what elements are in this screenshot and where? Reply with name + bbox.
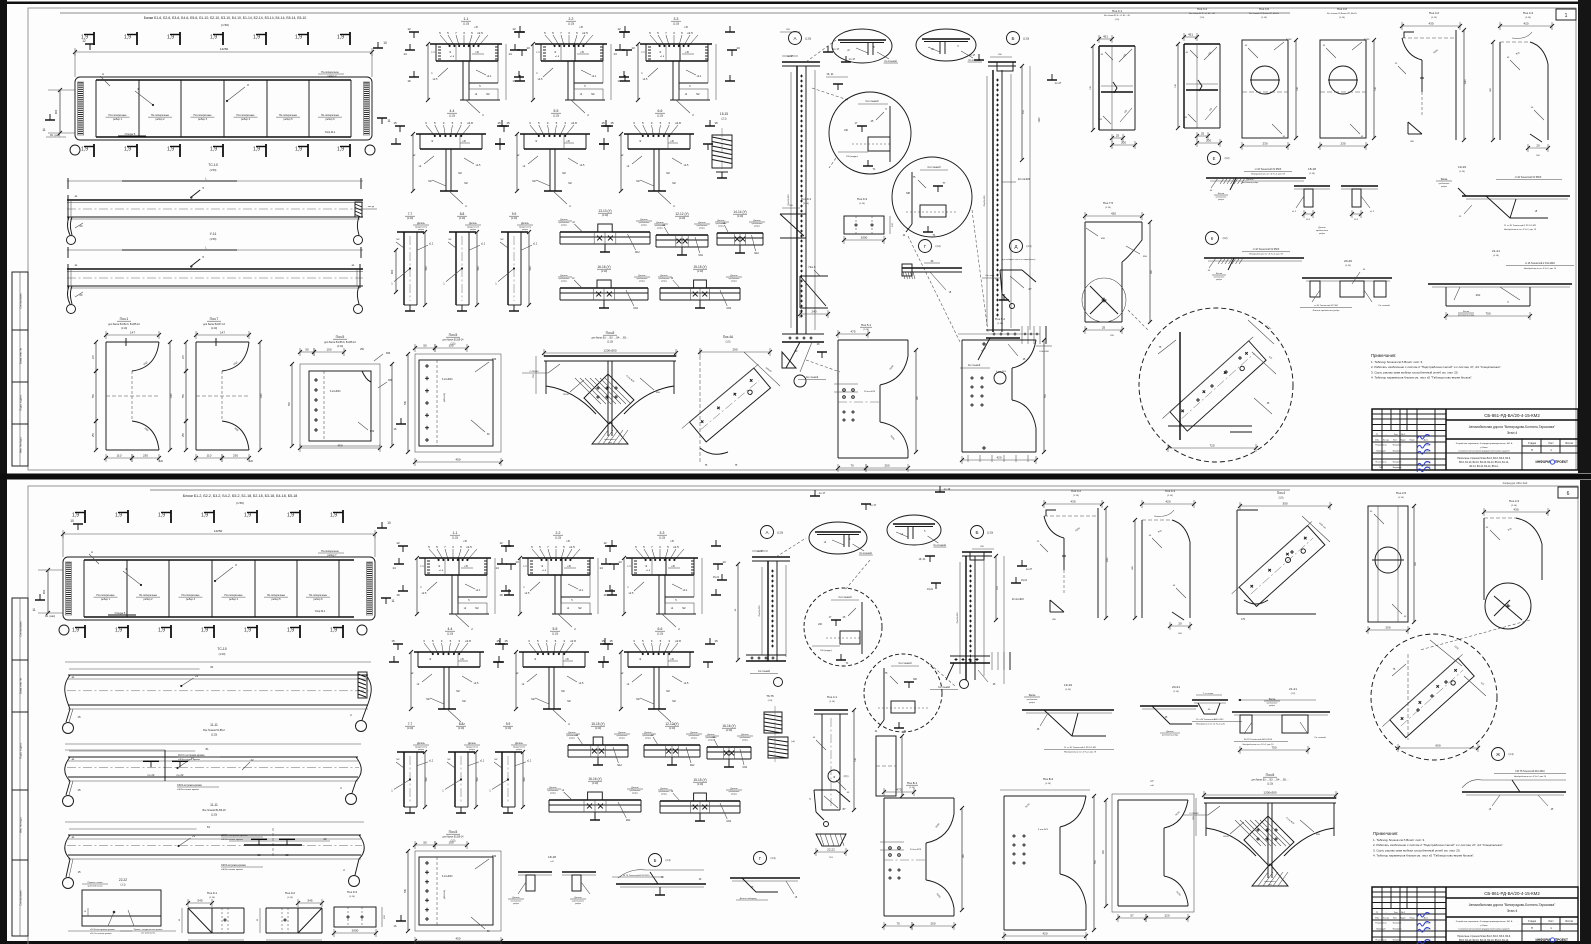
channel detail 8-8 sheet1 [443, 212, 486, 311]
svg-text:Взам. инв. №: Взам. инв. № [19, 678, 23, 694]
svg-text:По-поперечные: По-поперечные [193, 114, 212, 117]
svg-text:гребневого ребра: гребневого ребра [1162, 735, 1179, 737]
svg-text:70: 70 [850, 464, 854, 468]
svg-text:(1:10): (1:10) [553, 115, 559, 118]
leader bubble line sheet1 [1128, 310, 1148, 330]
svg-text:по 1Г: по 1Г [833, 47, 840, 51]
svg-text:По-поперечное: По-поперечное [321, 550, 339, 553]
sheet2 elev2 leader 22 [242, 758, 254, 770]
svg-text:(1:10): (1:10) [1267, 784, 1273, 786]
svg-text:22: 22 [257, 853, 261, 857]
svg-text:700 (подкр.): 700 (подкр.) [820, 650, 832, 652]
svg-text:Разработал: Разработал [1375, 445, 1387, 447]
svg-text:1,9: 1,9 [330, 513, 337, 519]
channel detail 9-9 sheet2 [489, 722, 532, 813]
svg-text:Деталь: Деталь [417, 743, 425, 745]
svg-text:Фамилия: Фамилия [1393, 939, 1402, 942]
svg-text:Б: Б [1011, 36, 1014, 41]
svg-text:х2.8: х2.8 [465, 639, 471, 643]
svg-text:Со стенкой: Со стенкой [758, 670, 771, 673]
svg-text:Проверил: Проверил [1376, 451, 1386, 453]
svg-text:25: 25 [1201, 132, 1205, 136]
svg-text:х.В: х.В [670, 540, 674, 543]
svg-text:(1:10): (1:10) [121, 327, 127, 330]
sheet1 title text [144, 16, 307, 27]
svg-text:х2.5: х2.5 [422, 592, 427, 595]
svg-text:±46 Б-острожка кромка: ±46 Б-острожка кромка [177, 785, 202, 787]
svg-text:147: 147 [130, 331, 135, 335]
svg-text:R30: R30 [370, 431, 375, 433]
svg-text:(1:10): (1:10) [697, 270, 703, 273]
svg-text:Поз.9.3: Поз.9.3 [857, 197, 868, 201]
svg-text:1080: 1080 [1107, 557, 1109, 563]
plate Poz5.1 sheet1 [834, 323, 919, 472]
svg-text:14: 14 [495, 566, 499, 570]
svg-text:ребра: ребра [561, 281, 568, 283]
svg-text:3. Сорн, распас-свая выбкал сп: 3. Сорн, распас-свая выбкал способленный… [1373, 848, 1461, 852]
svg-text:(1:10): (1:10) [463, 23, 469, 26]
plate Poz4.6a sheet1 [1240, 7, 1299, 150]
svg-text:ст.10 Технослой Х2 300: ст.10 Технослой Х2 300 [1314, 304, 1339, 307]
svg-text:230: 230 [1262, 142, 1267, 146]
svg-text:Разработал: Разработал [1375, 923, 1387, 925]
svg-text:545: 545 [197, 899, 202, 903]
svg-text:Блоки Б1-2, Б2-2, Б3-2, Б4-2,: Блоки Б1-2, Б2-2, Б3-2, Б4-2, Б5-2, Б1-1… [183, 494, 298, 498]
svg-text:По-поперечное: По-поперечное [321, 71, 339, 74]
svg-text:1-1: 1-1 [453, 531, 458, 535]
svg-text:ребра: ребра [1216, 279, 1223, 281]
svg-text:13: 13 [736, 46, 740, 50]
svg-text:R30: R30 [386, 353, 391, 355]
svg-text:9-9: 9-9 [512, 212, 517, 216]
svg-text:(1:10): (1:10) [209, 897, 215, 899]
svg-text:14: 14 [613, 52, 617, 56]
svg-text:ребер 3: ребер 3 [186, 598, 196, 601]
svg-text:Со стенкой: Со стенкой [1314, 736, 1326, 739]
section detail 2-2 sheet1 [508, 17, 635, 117]
svg-text:(1:10): (1:10) [407, 217, 413, 220]
svg-text:Кол.уч: Кол.уч [1383, 440, 1389, 442]
svg-text:(1:10): (1:10) [997, 323, 1003, 325]
svg-text:19, 21: 19, 21 [919, 558, 927, 561]
svg-text:Со стенкой: Со стенкой [866, 100, 880, 103]
svg-text:720: 720 [1209, 444, 1214, 448]
svg-text:Лист: Лист [1393, 440, 1397, 442]
svg-text:Фамилия: Фамилия [1393, 450, 1402, 453]
svg-text:С-25ФБХ: С-25ФБХ [529, 370, 539, 373]
svg-text:20-20: 20-20 [1344, 259, 1352, 263]
detail 19-19 sheet1 [1436, 165, 1570, 231]
svg-text:Инв. № подл.: Инв. № подл. [19, 437, 23, 453]
svg-text:1,9: 1,9 [337, 147, 344, 153]
svg-text:1,9: 1,9 [167, 35, 174, 41]
svg-text:1,9: 1,9 [115, 513, 122, 519]
svg-text:900: 900 [390, 269, 394, 274]
sheet1 beam plan A marks [100, 72, 110, 86]
svg-text:Поз.4А: Поз.4А [723, 335, 734, 339]
svg-text:430: 430 [1070, 500, 1075, 504]
detail 18-18 sheet1 [1242, 167, 1378, 235]
svg-text:х.Б: х.Б [565, 658, 569, 661]
svg-text:х2.1: х2.1 [592, 75, 597, 78]
svg-text:ребра: ребра [657, 228, 664, 230]
plate Poz4 sheet2 [1232, 491, 1332, 621]
svg-text:1,9: 1,9 [201, 513, 208, 519]
sheet1 beam plan [75, 77, 372, 140]
svg-text:(1:10): (1:10) [673, 23, 679, 26]
svg-text:Поз.4.4: Поз.4.4 [1197, 7, 1208, 11]
section detail 4-4 sheet2 [389, 627, 508, 726]
svg-text:15: 15 [391, 639, 395, 643]
svg-text:Изм: Изм [1375, 918, 1379, 920]
plate Poz5.2 sheet1 [958, 317, 1047, 464]
svg-text:(1:5): (1:5) [1279, 498, 1284, 500]
svg-text:(1:10): (1:10) [829, 701, 835, 703]
svg-text:1,9: 1,9 [330, 628, 337, 634]
svg-text:500: 500 [425, 266, 428, 271]
svg-text:Деталь: Деталь [644, 732, 652, 734]
svg-text:15-15 (У): 15-15 (У) [693, 265, 706, 269]
svg-text:№док: №док [1400, 917, 1405, 920]
svg-text:420: 420 [1165, 500, 1170, 504]
svg-text:По-поперечные: По-поперечные [151, 114, 170, 117]
svg-text:оси: оси [608, 442, 611, 444]
section detail 1-1 sheet1 [403, 17, 530, 117]
svg-text:1,9: 1,9 [158, 513, 165, 519]
svg-text:16-16 (У): 16-16 (У) [588, 777, 601, 781]
svg-text:М12: М12 [633, 308, 638, 310]
svg-text:Подп: Подп [1410, 918, 1415, 920]
svg-text:±46 Б-сатанке кромке: ±46 Б-сатанке кромке [221, 869, 244, 871]
svg-text:11 ст.16 Технослой-2 Х12-О.МЗ: 11 ст.16 Технослой-2 Х12-О.МЗ [1504, 224, 1536, 227]
svg-text:х.В: х.В [463, 540, 467, 543]
svg-text:з: з [833, 774, 835, 779]
svg-text:ребер 3: ребер 3 [198, 118, 208, 121]
svg-text:Поз.4.1: Поз.4.1 [827, 695, 838, 699]
svg-text:±16, Б-сатанке кромка: ±16, Б-сатанке кромка [90, 933, 112, 935]
svg-text:1060: 1060 [171, 393, 173, 399]
svg-text:х1.2: х1.2 [481, 243, 486, 245]
detail 20-21 sheet2 [1140, 685, 1198, 737]
svg-text:1. Таблицу блоков см б.Влист л: 1. Таблицу блоков см б.Влист лист 3. [1371, 360, 1423, 364]
svg-text:Подп: Подп [1410, 440, 1415, 442]
svg-text:150: 150 [448, 841, 453, 845]
sheet2 plan tick10L [70, 519, 83, 530]
svg-text:04.21: 04.21 [1425, 445, 1431, 447]
svg-text:8-8: 8-8 [460, 212, 465, 216]
svg-text:Упор М-1: Упор М-1 [315, 610, 326, 613]
svg-text:15: 15 [496, 639, 500, 643]
svg-text:х2.5: х2.5 [579, 682, 584, 685]
svg-text:15: 15 [504, 639, 508, 643]
svg-text:230: 230 [143, 454, 148, 458]
svg-text:х2.5: х2.5 [477, 31, 483, 35]
svg-text:230: 230 [233, 454, 238, 458]
svg-text:40 отв.Ф23: 40 отв.Ф23 [1012, 598, 1024, 601]
svg-text:Вч. блоков 6,8 Более 4П, Мо-Пх: Вч. блоков 6,8 Более 4П, Мо-Пх [1249, 13, 1279, 15]
svg-text:ПРОЕКТ: ПРОЕКТ [1555, 938, 1568, 942]
plate Poz7 sheet2 [1103, 779, 1194, 922]
plate Poz4.3b sheet2 [1420, 499, 1550, 650]
svg-text:250: 250 [930, 922, 935, 926]
svg-text:х1.2: х1.2 [527, 760, 532, 762]
svg-text:1. Таблицу блоков см б.Влист л: 1. Таблицу блоков см б.Влист лист 3. [1373, 838, 1425, 842]
sheet2 beam plan left side dim [38, 568, 63, 615]
svg-text:(1:4): (1:4) [1509, 753, 1514, 756]
svg-text:Со стенкой: Со стенкой [899, 662, 913, 665]
svg-text:ст.16 Технослой Х2 350Х: ст.16 Технослой Х2 350Х [1515, 176, 1542, 179]
svg-text:Со стенкой: Со стенкой [933, 544, 946, 547]
svg-text:10: 10 [383, 41, 387, 45]
sheet1 beam overall dim [73, 47, 374, 77]
svg-text:(1:10): (1:10) [679, 217, 685, 220]
marker circle B sheet2 [971, 526, 994, 539]
svg-text:Согласовано: Согласовано [19, 890, 23, 906]
svg-text:1,9: 1,9 [337, 35, 344, 41]
column B bottom bracket sheet2 [927, 577, 1028, 690]
svg-text:По-поперечные: По-поперечные [181, 594, 200, 597]
svg-text:(1:10): (1:10) [657, 115, 663, 118]
svg-text:ребра: ребра [754, 226, 761, 228]
section detail 5-5 sheet1 [495, 109, 614, 208]
svg-text:Все балок Б1 Б...-6, Б1...-10: Все балок Б1 Б...-6, Б1...-10 [1104, 15, 1131, 17]
detail Poz9.3 sheet2 [332, 890, 386, 937]
svg-text:1060: 1060 [261, 393, 263, 399]
svg-text:(1:10): (1:10) [459, 217, 465, 220]
svg-text:(1:10): (1:10) [602, 214, 608, 217]
detail 18-18 sheet2 [508, 855, 596, 905]
svg-text:25: 25 [1102, 326, 1106, 330]
svg-text:х2.5: х2.5 [684, 682, 689, 685]
detail circle 1 sheet2 [804, 588, 882, 666]
svg-text:15-15: 15-15 [720, 112, 728, 116]
svg-text:500: 500 [425, 777, 428, 782]
svg-text:х2.1: х2.1 [697, 75, 702, 78]
svg-text:Деталь: Деталь [469, 223, 477, 225]
svg-text:Поз.8: Поз.8 [606, 331, 615, 335]
svg-text:для балок Б1-..., Б3-..., Б4-.: для балок Б1-..., Б3-..., Б4-..., Б5-... [1251, 780, 1288, 782]
svg-text:4-4: 4-4 [450, 109, 455, 113]
svg-text:Необработано по т.4 Уч.2, р.20: Необработано по т.4 Уч.2, р.20 [1196, 724, 1226, 726]
svg-text:ребра: ребра [632, 793, 639, 795]
svg-text:475: 475 [896, 788, 901, 792]
svg-text:гребневого ребра: гребневого ребра [1242, 182, 1259, 184]
left black scan strip [0, 0, 7, 944]
svg-text:16: 16 [512, 79, 516, 83]
svg-text:(1:10): (1:10) [447, 633, 453, 636]
svg-text:по 17: по 17 [870, 503, 877, 507]
sheet1 beam plan right tick11b [377, 118, 391, 124]
svg-text:х.В: х.В [580, 51, 584, 54]
svg-text:ребра: ребра [418, 229, 425, 231]
svg-text:(1:20): (1:20) [219, 652, 226, 656]
detail 13-13 sheet1 [558, 209, 652, 254]
svg-text:ребер 6: ребер 6 [325, 118, 335, 121]
svg-text:Пролетные строения блоки Б1-6,: Пролетные строения блоки Б1-6, Б2-6, Б3-… [1457, 458, 1511, 460]
marker circle E sheet1 [1206, 152, 1306, 202]
section detail 2-2 sheet2 [495, 531, 622, 631]
plate Poz4.1 sheet1 [1090, 9, 1137, 149]
svg-text:Провес стенки: Провес стенки [88, 882, 104, 884]
svg-text:20-21: 20-21 [1172, 685, 1180, 689]
svg-text:15-15 (У): 15-15 (У) [591, 722, 604, 726]
svg-text:М12: М12 [1476, 295, 1481, 297]
svg-text:Опора 5: Опора 5 [125, 132, 136, 136]
detail 15-15 sheet2 [566, 722, 630, 767]
svg-text:Деталь: Деталь [560, 275, 568, 277]
detail Poz9.3 sheet1 [842, 197, 894, 244]
svg-text:для балок Б1,Б9-14: для балок Б1,Б9-14 [443, 340, 465, 342]
svg-text:х2.1: х2.1 [683, 589, 688, 592]
section detail 5-5 sheet2 [494, 627, 613, 726]
svg-text:04.21: 04.21 [1425, 923, 1431, 925]
plate Poz5 sheet1 middle [394, 333, 503, 466]
channel detail 9-9 sheet1 [495, 212, 538, 311]
svg-text:(1:4): (1:4) [768, 700, 773, 702]
svg-text:(1:10): (1:10) [552, 633, 558, 636]
svg-text:Кафедра АБи-4кй: Кафедра АБи-4кй [1503, 481, 1528, 485]
sheet2 beam plan [63, 557, 375, 620]
svg-text:Необработано по т.4 Уч.2, рис: Необработано по т.4 Уч.2, рис 19 [1524, 268, 1557, 270]
section detail 1-1 sheet2 [392, 531, 519, 631]
sheet1 elevation2 [67, 246, 364, 314]
svg-text:У-11: У-11 [210, 232, 217, 236]
svg-text:М12: М12 [617, 765, 622, 767]
svg-text:Поз.4: Поз.4 [1277, 491, 1285, 495]
svg-text:25х24=600: 25х24=600 [788, 194, 790, 206]
svg-text:15: 15 [609, 639, 613, 643]
svg-text:13-13 (У): 13-13 (У) [598, 209, 611, 213]
section detail 4-4 sheet1 [391, 109, 510, 208]
svg-text:ребра: ребра [708, 740, 715, 742]
svg-text:(1:10): (1:10) [568, 23, 574, 26]
svg-text:Устройство чернового г.Э.город: Устройство чернового г.Э.города промежут… [1456, 920, 1513, 923]
sheet2 page number box [1558, 487, 1578, 498]
svg-text:5-5: 5-5 [553, 627, 558, 631]
svg-text:М8: М8 [913, 678, 917, 681]
svg-text:Д: Д [1015, 244, 1018, 249]
svg-text:(1:4): (1:4) [666, 859, 671, 862]
svg-text:Б: Б [654, 858, 657, 863]
svg-text:Деталь: Деталь [1318, 227, 1326, 229]
sheet1 elev1 header [208, 163, 218, 172]
svg-text:№док: №док [1400, 439, 1405, 442]
svg-text:М12: М12 [727, 308, 732, 310]
svg-text:250: 250 [884, 464, 889, 468]
svg-text:х2.5: х2.5 [582, 31, 588, 35]
svg-text:х2.5: х2.5 [466, 545, 472, 549]
svg-text:ребра: ребра [575, 903, 582, 905]
svg-text:7-7: 7-7 [408, 212, 413, 216]
svg-text:Н.контроль: Н.контроль [1376, 940, 1387, 942]
svg-text:по 22: по 22 [148, 773, 155, 777]
sheet2 frame [28, 486, 1578, 944]
svg-text:гребневого: гребневого [1439, 183, 1450, 185]
big assembly circle sheet2 [1371, 634, 1497, 760]
sheet2 beam plan bottom circles [59, 625, 367, 635]
svg-text:Необработано по т.4 Уч.2, рис: Необработано по т.4 Уч.2, рис 19 [1064, 752, 1097, 754]
sheet2 plan tick11L [32, 594, 45, 612]
diag plate Poz4A sheet1 [682, 335, 780, 467]
svg-text:4-4: 4-4 [448, 627, 453, 631]
svg-text:р.Чони: р.Чони [1481, 925, 1489, 927]
column elevation B sheet2 [957, 546, 1033, 684]
svg-text:Поз.4.6: Поз.4.6 [1259, 7, 1270, 11]
channel detail 8-8 sheet2 [442, 722, 485, 813]
svg-text:Поз.Б.2: Поз.Б.2 [1043, 777, 1054, 781]
marker circle B sheet1 [1007, 32, 1030, 45]
svg-text:Деталь: Деталь [618, 732, 626, 734]
sheet2 elev1 right hatch [358, 672, 367, 698]
section detail 3-3 sheet2 [599, 531, 726, 631]
svg-text:По-поперечные: По-поперечные [321, 114, 340, 117]
svg-text:С-25ФБХ: С-25ФБХ [1189, 812, 1199, 815]
svg-text:Листов: Листов [1565, 920, 1573, 923]
svg-text:230: 230 [1340, 142, 1345, 146]
sheet2 beam overall dim [61, 529, 377, 557]
detail 19-19 sheet2 [1022, 683, 1114, 754]
svg-text:12: 12 [407, 27, 411, 31]
svg-text:х.Б: х.Б [566, 140, 570, 143]
plate Poz4.5 sheet2 [1366, 491, 1417, 634]
svg-text:16: 16 [499, 593, 503, 597]
svg-text:для балок Б1-..., Б3-..., Б4-.: для балок Б1-..., Б3-..., Б4-..., Б5-... [591, 338, 628, 340]
bottom black edge line [0, 941, 1591, 944]
svg-text:Со стенкой: Со стенкой [806, 376, 819, 379]
svg-text:±10 Т6 Технослой К12-2010: ±10 Т6 Технослой К12-2010 [1515, 770, 1545, 773]
svg-text:45°: 45° [842, 809, 846, 811]
svg-text:(1:10): (1:10) [1167, 495, 1173, 497]
svg-text:СБ-861-РД-ВА/20-4-15-КМ2: СБ-861-РД-ВА/20-4-15-КМ2 [1484, 413, 1540, 418]
svg-text:13: 13 [631, 46, 635, 50]
svg-text:Стадия: Стадия [1528, 442, 1537, 445]
svg-text:4. Таблицу параметров блоков с: 4. Таблицу параметров блоков см. лист к5… [1373, 854, 1475, 858]
svg-text:по 1Г: по 1Г [787, 55, 794, 58]
svg-text:по 22: по 22 [177, 773, 184, 777]
svg-text:(1:10): (1:10) [697, 783, 703, 786]
svg-text:16-16 (У): 16-16 (У) [722, 724, 735, 728]
svg-text:Н.контроль: Н.контроль [1376, 462, 1387, 464]
svg-text:1,9: 1,9 [244, 513, 251, 519]
svg-text:для балок Б1,Б5-6, Б1,Б5-10: для балок Б1,Б5-6, Б1,Б5-10 [324, 341, 356, 344]
svg-text:5-5: 5-5 [554, 109, 559, 113]
svg-text:ребра: ребра [1269, 705, 1276, 707]
svg-text:22: 22 [250, 758, 254, 762]
svg-text:х2.5: х2.5 [538, 78, 543, 81]
svg-text:(1:4): (1:4) [771, 857, 776, 860]
svg-text:х2.5: х2.5 [687, 31, 693, 35]
svg-text:ст.16 Технослой Х2 350Х: ст.16 Технослой Х2 350Х [1255, 168, 1282, 171]
svg-text:х.Б: х.Б [462, 140, 466, 143]
svg-text:Поз.9.2: Поз.9.2 [285, 891, 296, 895]
svg-text:М8: М8 [906, 191, 910, 195]
svg-text:По-поперечные: По-поперечные [139, 594, 158, 597]
svg-text:12: 12 [617, 27, 621, 31]
svg-text:Поз.4.5: Поз.4.5 [1396, 491, 1407, 495]
svg-text:Деталь: Деталь [640, 219, 648, 221]
detail 16-16u sheet2 [705, 724, 753, 769]
svg-text:Инв. № подл.: Инв. № подл. [19, 817, 23, 833]
svg-text:15: 15 [714, 121, 718, 125]
svg-text:40 отв.Ф23: 40 отв.Ф23 [1018, 178, 1031, 181]
svg-text:(1:50): (1:50) [236, 501, 244, 505]
svg-text:(1:10): (1:10) [595, 727, 601, 730]
bracket detail G sheet2 [730, 878, 800, 900]
plate Poz7 sheet1 [183, 317, 263, 463]
svg-text:Поз.7.5: Поз.7.5 [1103, 201, 1114, 205]
svg-text:по 2Г: по 2Г [1026, 568, 1033, 571]
svg-text:П: П [1531, 926, 1533, 930]
